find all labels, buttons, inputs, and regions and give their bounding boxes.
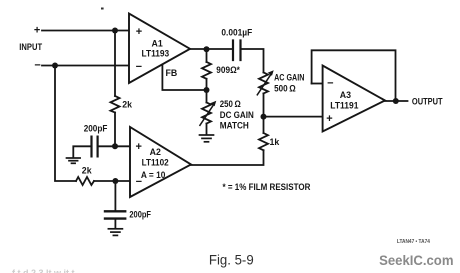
wire cap left lead to ground — [73, 146, 91, 157]
wire node to 250 pot — [206, 90, 208, 103]
ground (under upper 200pF) — [67, 158, 81, 163]
wire A3 output — [385, 100, 408, 102]
node A2 - input junction — [112, 178, 118, 184]
label 2k (horizontal resistor) — [82, 166, 92, 176]
op-amp U A2 LT1102 — [130, 127, 191, 197]
wire node down to 1k — [263, 117, 265, 133]
svg-text:A3: A3 — [340, 90, 351, 100]
svg-text:LTAN47 • TA74: LTAN47 • TA74 — [397, 239, 430, 245]
resistor R 1k — [259, 133, 268, 150]
node label plus sign of + INPUT — [34, 25, 40, 37]
capacitor C 200pF (lower, vertical) — [105, 211, 125, 218]
wire node down to 200pF — [114, 181, 116, 210]
wire cap right lead — [98, 145, 115, 147]
label footnote 1% film resistor — [223, 182, 311, 192]
label 0.001uF — [221, 27, 252, 37]
ground (under lower 200pF) — [108, 229, 122, 236]
label INPUT — [19, 42, 42, 52]
wire 2k to A2 + node — [114, 113, 116, 147]
wire cap to ground — [114, 220, 116, 228]
svg-text:LT1191: LT1191 — [330, 100, 358, 110]
svg-text:+: + — [326, 113, 332, 125]
wire pot to sum node — [263, 93, 265, 116]
faint cropped text artifact bottom-left — [12, 268, 75, 273]
op-amp U A1 LT1193 — [129, 14, 190, 84]
wire A1 output — [190, 48, 233, 50]
svg-text:200pF: 200pF — [84, 123, 108, 133]
wire node to A3 + input — [264, 116, 323, 118]
svg-text:−: − — [327, 78, 333, 90]
resistor R 2k (vertical) — [111, 96, 120, 113]
wire feedback to A3 - input — [312, 83, 323, 85]
svg-text:LT1193: LT1193 — [142, 49, 170, 59]
wire -input to A1 — [42, 65, 129, 67]
node A2 + input junction — [112, 143, 118, 149]
svg-text:A = 10: A = 10 — [141, 170, 166, 180]
wire pot to ground — [206, 124, 208, 135]
svg-text:f t d 2 3 lt w it t: f t d 2 3 lt w it t — [12, 268, 75, 273]
node label minus sign of - INPUT — [34, 60, 40, 72]
op-amp U A3 LT1191 — [323, 66, 385, 132]
label 2k — [122, 99, 132, 109]
wire -input node down and to 2k — [55, 66, 76, 182]
svg-text:FB: FB — [166, 68, 178, 78]
label 200pF (upper) — [84, 123, 108, 133]
potentiometer R 250ohm DC GAIN MATCH — [202, 103, 211, 124]
svg-text:2k: 2k — [122, 99, 132, 109]
wire cap to AC gain pot — [241, 49, 264, 73]
svg-text:909Ω*: 909Ω* — [216, 65, 240, 75]
node A3 output junction — [393, 98, 399, 104]
svg-text:−: − — [34, 60, 40, 72]
wire +input node down to 2k — [114, 31, 116, 97]
node junction -input — [52, 63, 58, 69]
wire FB pin — [162, 65, 207, 91]
svg-text:+: + — [136, 26, 142, 38]
label 200pF (lower) — [129, 209, 151, 219]
label 909ohm* — [216, 65, 240, 75]
resistor R 909ohm — [202, 62, 211, 79]
wire 2k to A2 - input — [94, 180, 130, 182]
svg-text:2k: 2k — [82, 166, 92, 176]
wire node to A2 + input — [115, 145, 130, 147]
svg-text:MATCH: MATCH — [220, 121, 249, 131]
ground (under 250 pot) — [200, 135, 214, 142]
capacitor C 200pF (upper, horizontal) — [92, 137, 98, 157]
svg-text:200pF: 200pF — [129, 209, 151, 219]
svg-text:INPUT: INPUT — [19, 42, 42, 52]
svg-text:OUTPUT: OUTPUT — [412, 96, 443, 106]
svg-text:A2: A2 — [150, 147, 161, 157]
svg-text:+: + — [136, 141, 142, 153]
svg-text:LT1102: LT1102 — [142, 158, 169, 168]
svg-text:* = 1% FILM RESISTOR: * = 1% FILM RESISTOR — [223, 182, 311, 192]
svg-text:A1: A1 — [152, 39, 163, 49]
speck artifact top — [101, 8, 104, 10]
label OUTPUT — [412, 96, 443, 106]
svg-text:500 Ω: 500 Ω — [274, 83, 296, 93]
svg-text:250 Ω: 250 Ω — [220, 99, 241, 109]
svg-text:−: − — [136, 61, 142, 73]
potentiometer R AC GAIN 500ohm — [259, 73, 268, 94]
svg-text:Fig. 5-9: Fig. 5-9 — [209, 252, 254, 268]
node AC/DC sum junction — [261, 114, 267, 120]
wire +input to A1 — [42, 30, 129, 32]
wire 1k to A2 output — [191, 150, 264, 165]
svg-text:AC GAIN: AC GAIN — [274, 73, 304, 83]
node FB junction — [204, 87, 210, 93]
wire output node down to 909 — [206, 49, 208, 62]
resistor R 2k (horizontal) — [76, 177, 94, 185]
wire A3 feedback loop — [312, 50, 396, 101]
svg-text:1k: 1k — [270, 137, 280, 147]
svg-text:DC GAIN: DC GAIN — [220, 110, 254, 120]
node A1 output junction — [204, 46, 210, 52]
svg-text:SeekIC.com: SeekIC.com — [379, 253, 453, 269]
svg-text:0.001µF: 0.001µF — [221, 27, 252, 37]
label 1k — [270, 137, 280, 147]
capacitor C 0.001uF — [233, 41, 241, 61]
svg-text:+: + — [34, 25, 40, 37]
node junction +input — [112, 28, 118, 34]
wire 909 to FB node — [206, 79, 208, 90]
